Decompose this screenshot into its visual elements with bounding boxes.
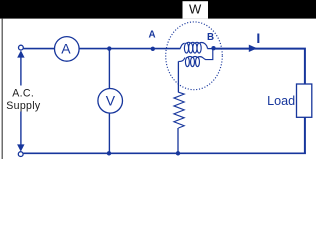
- svg-text:B: B: [207, 32, 214, 43]
- svg-text:A: A: [148, 30, 155, 41]
- svg-text:A: A: [61, 40, 71, 56]
- svg-text:I: I: [256, 30, 260, 46]
- svg-text:V: V: [106, 92, 116, 108]
- svg-text:W: W: [189, 2, 202, 17]
- svg-text:Load: Load: [267, 94, 295, 108]
- svg-text:Supply: Supply: [6, 100, 41, 112]
- svg-text:A.C.: A.C.: [12, 87, 34, 99]
